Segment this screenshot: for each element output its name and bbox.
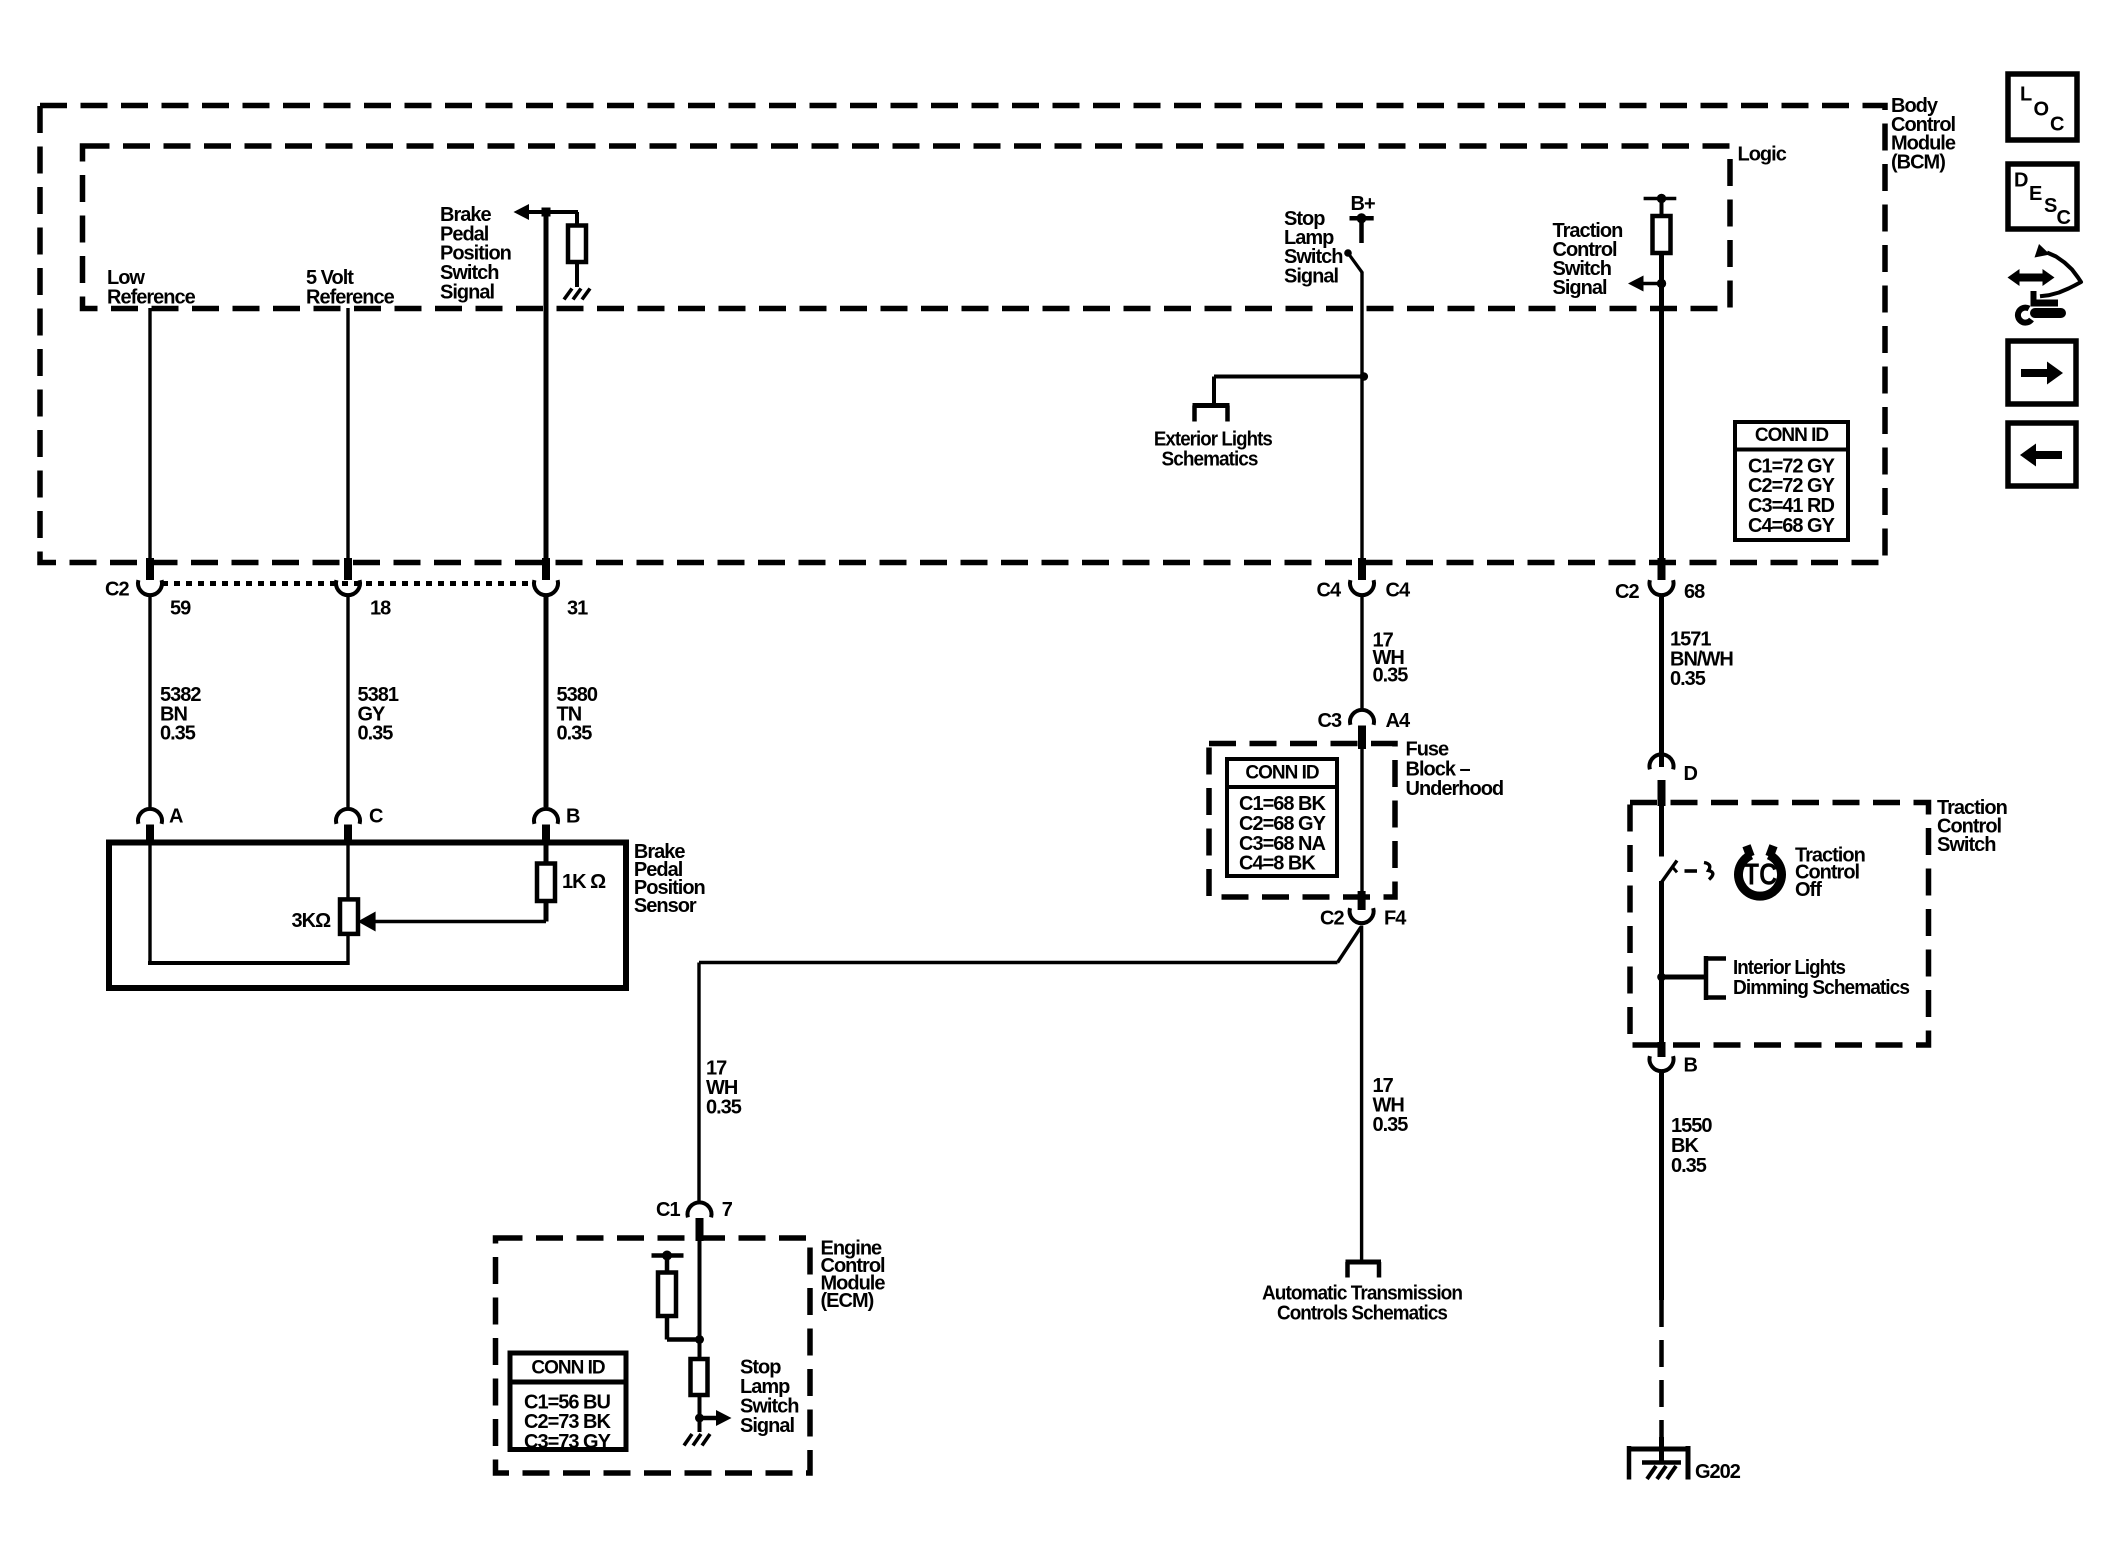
svg-text:Signal: Signal <box>1553 277 1607 299</box>
svg-text:Signal: Signal <box>740 1415 794 1437</box>
svg-text:C4=68 GY: C4=68 GY <box>1748 515 1836 537</box>
svg-text:0.35: 0.35 <box>557 723 593 745</box>
svg-text:1571: 1571 <box>1670 629 1711 651</box>
svg-text:Fuse: Fuse <box>1406 738 1450 760</box>
svg-text:TC: TC <box>1744 857 1778 892</box>
svg-text:Interior Lights: Interior Lights <box>1733 957 1846 979</box>
svg-text:C2: C2 <box>105 579 129 601</box>
svg-text:Block –: Block – <box>1406 758 1471 780</box>
svg-text:Signal: Signal <box>440 281 494 303</box>
svg-text:7: 7 <box>722 1199 733 1221</box>
svg-text:C3: C3 <box>1318 710 1342 732</box>
svg-text:0.35: 0.35 <box>358 723 394 745</box>
svg-text:C1: C1 <box>656 1199 680 1221</box>
svg-text:B: B <box>1684 1055 1698 1077</box>
svg-text:C1=68 BK: C1=68 BK <box>1239 793 1326 815</box>
svg-text:68: 68 <box>1684 581 1705 603</box>
svg-text:Sensor: Sensor <box>634 895 697 917</box>
svg-text:A: A <box>169 806 183 828</box>
svg-text:Exterior Lights: Exterior Lights <box>1154 429 1273 451</box>
svg-text:Reference: Reference <box>107 286 196 308</box>
svg-text:Logic: Logic <box>1738 144 1787 166</box>
svg-text:C4: C4 <box>1386 580 1411 602</box>
svg-text:C: C <box>369 806 383 828</box>
svg-text:CONN ID: CONN ID <box>531 1358 605 1379</box>
svg-text:Off: Off <box>1795 879 1822 901</box>
svg-text:CONN ID: CONN ID <box>1245 763 1319 784</box>
svg-text:(BCM): (BCM) <box>1891 152 1945 174</box>
svg-text:1K Ω: 1K Ω <box>562 871 606 893</box>
svg-text:C: C <box>2050 114 2064 136</box>
svg-text:C3=73 GY: C3=73 GY <box>524 1431 612 1453</box>
svg-text:C3=68 NA: C3=68 NA <box>1239 833 1325 855</box>
svg-text:Dimming Schematics: Dimming Schematics <box>1733 977 1910 999</box>
svg-text:BN/WH: BN/WH <box>1670 648 1733 670</box>
svg-text:D: D <box>1684 763 1698 785</box>
svg-text:31: 31 <box>567 598 588 620</box>
svg-text:Underhood: Underhood <box>1406 778 1504 800</box>
svg-text:C2: C2 <box>1320 908 1344 930</box>
svg-text:O: O <box>2034 98 2050 120</box>
svg-text:A4: A4 <box>1386 710 1411 732</box>
svg-text:C3=41 RD: C3=41 RD <box>1748 495 1834 517</box>
svg-text:CONN ID: CONN ID <box>1755 425 1829 446</box>
svg-text:0.35: 0.35 <box>1373 665 1409 687</box>
svg-text:Switch: Switch <box>1937 834 1995 856</box>
svg-text:C1=72 GY: C1=72 GY <box>1748 455 1836 477</box>
svg-text:E: E <box>2029 183 2042 205</box>
svg-text:F4: F4 <box>1384 908 1407 930</box>
svg-text:Automatic Transmission: Automatic Transmission <box>1262 1283 1462 1305</box>
svg-text:(ECM): (ECM) <box>821 1290 874 1312</box>
svg-text:59: 59 <box>170 598 191 620</box>
svg-text:C4: C4 <box>1317 580 1342 602</box>
svg-text:0.35: 0.35 <box>160 723 196 745</box>
svg-text:B+: B+ <box>1351 193 1375 215</box>
svg-text:BK: BK <box>1671 1135 1699 1157</box>
svg-text:3KΩ: 3KΩ <box>292 910 332 932</box>
svg-text:C2: C2 <box>1615 581 1639 603</box>
svg-text:C2=72 GY: C2=72 GY <box>1748 475 1836 497</box>
svg-text:G202: G202 <box>1695 1461 1741 1483</box>
svg-text:Reference: Reference <box>306 286 395 308</box>
svg-text:Signal: Signal <box>1284 265 1338 287</box>
svg-text:L: L <box>2020 83 2032 105</box>
svg-text:S: S <box>2044 195 2057 217</box>
svg-text:0.35: 0.35 <box>1671 1155 1707 1177</box>
svg-text:18: 18 <box>370 598 391 620</box>
svg-text:0.35: 0.35 <box>1670 668 1706 690</box>
svg-text:D: D <box>2014 169 2028 191</box>
svg-text:C4=8 BK: C4=8 BK <box>1239 853 1316 875</box>
svg-text:C: C <box>2057 207 2071 229</box>
svg-text:Controls Schematics: Controls Schematics <box>1277 1303 1448 1325</box>
svg-text:1550: 1550 <box>1671 1115 1712 1137</box>
svg-text:0.35: 0.35 <box>706 1097 742 1119</box>
svg-text:B: B <box>566 806 580 828</box>
svg-text:C2=68 GY: C2=68 GY <box>1239 813 1327 835</box>
svg-text:0.35: 0.35 <box>1373 1114 1409 1136</box>
svg-text:Schematics: Schematics <box>1162 449 1259 471</box>
